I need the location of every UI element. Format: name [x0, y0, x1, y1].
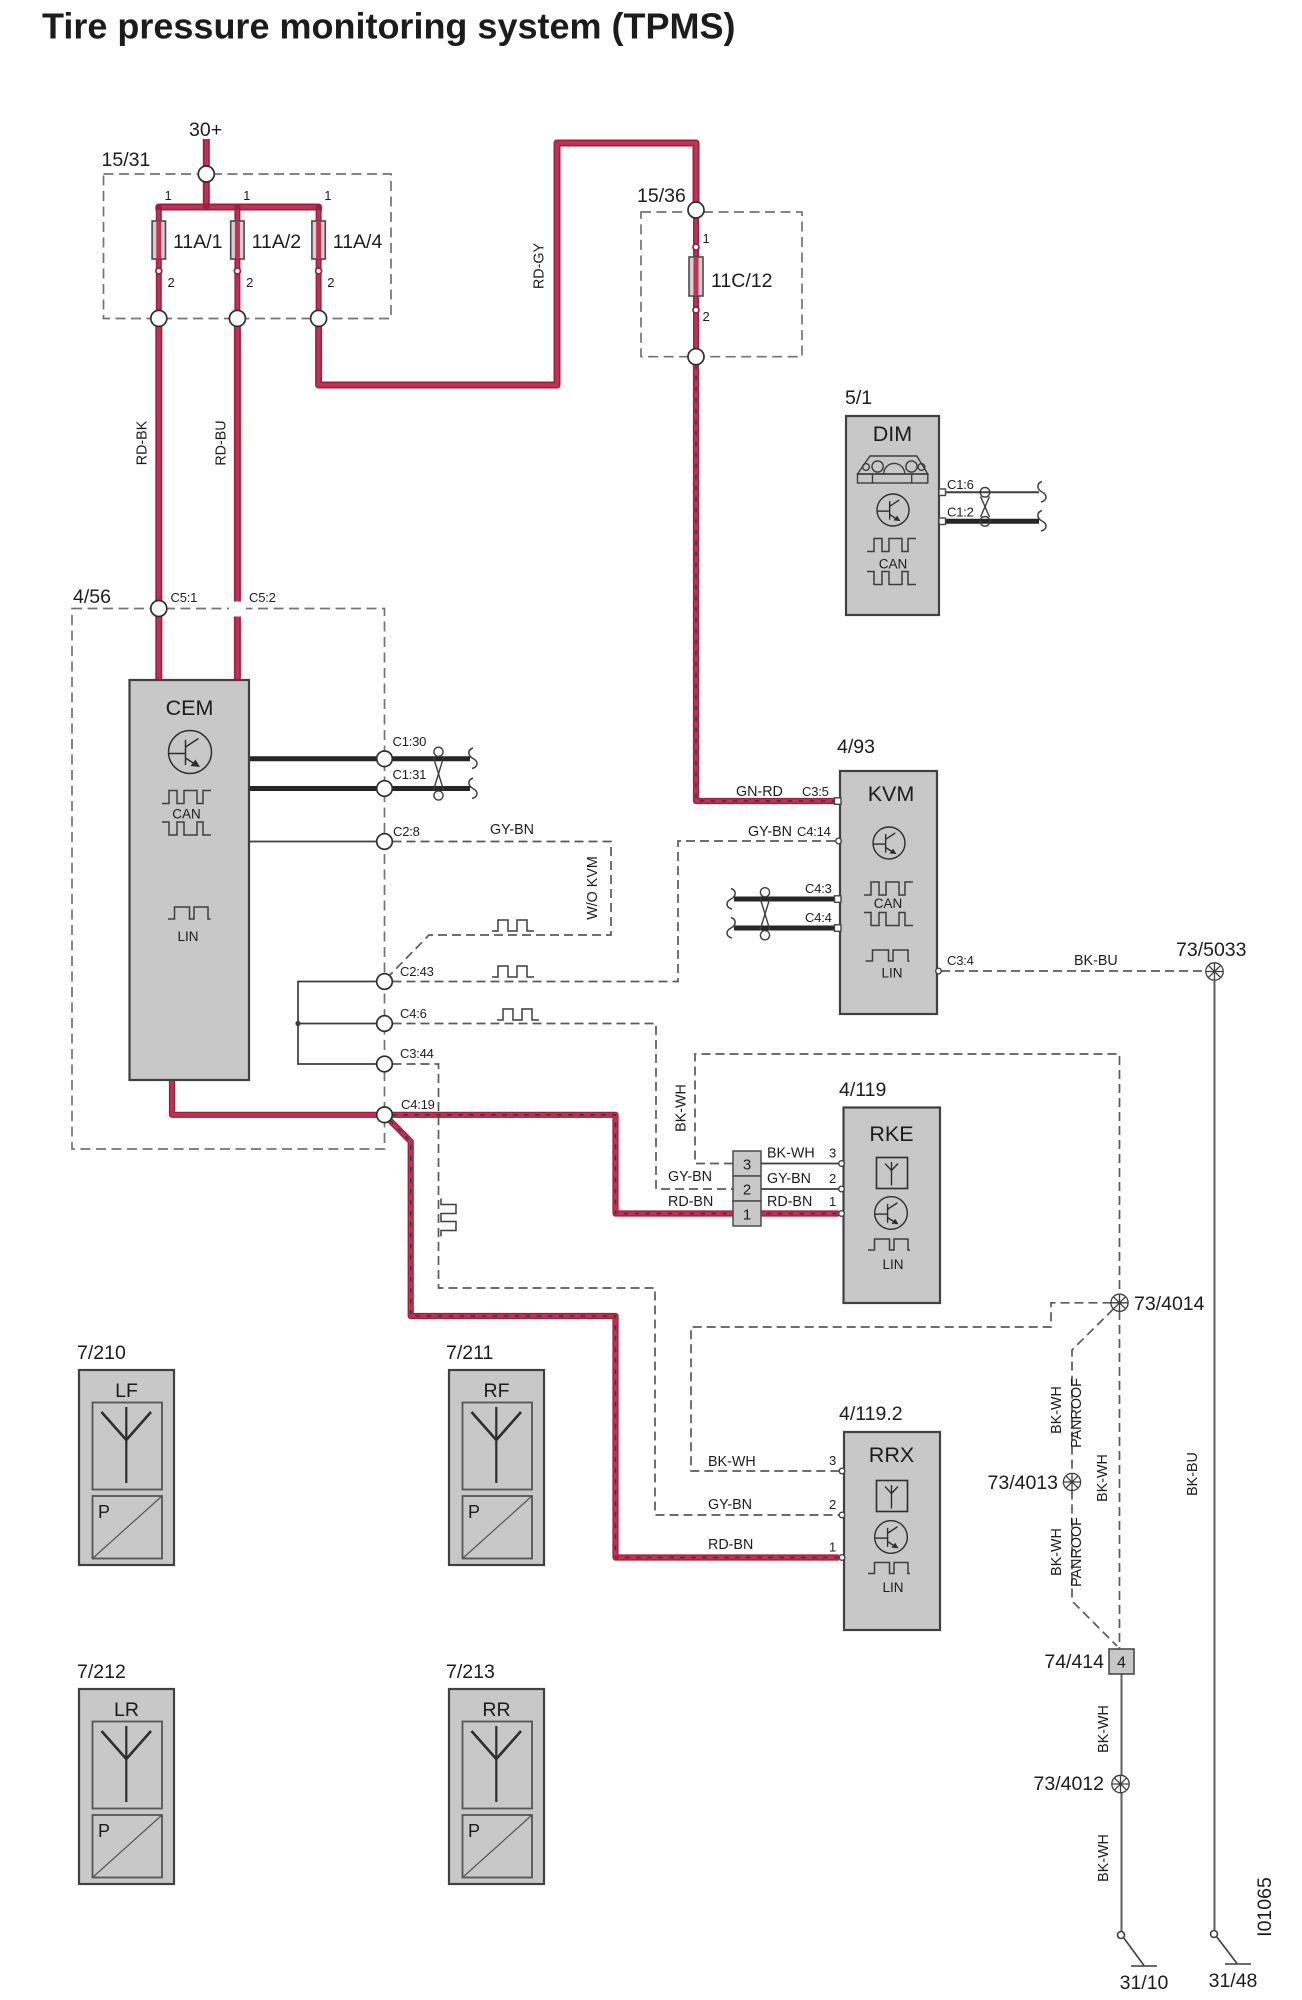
RR box 7/213	[449, 1689, 544, 1884]
svg-text:RR: RR	[482, 1699, 510, 1721]
svg-text:BK-WH: BK-WH	[767, 1146, 815, 1162]
wire CAN KVM C4:4	[734, 926, 840, 931]
svg-text:11C/12: 11C/12	[711, 270, 772, 292]
svg-text:W/O KVM: W/O KVM	[585, 856, 601, 920]
RKE pin 2	[839, 1186, 845, 1192]
svg-text:2: 2	[743, 1182, 751, 1199]
RKE connector block 3 2 1	[733, 1151, 761, 1226]
wire DIM C1:6	[946, 491, 1040, 493]
svg-text:RF: RF	[484, 1380, 510, 1402]
wire RD-BN C4:19 to RKE pin 1	[392, 1115, 839, 1214]
CEM transistor icon	[169, 731, 212, 774]
svg-text:C4:19: C4:19	[401, 1097, 435, 1112]
svg-text:CAN: CAN	[172, 807, 201, 822]
svg-text:1: 1	[165, 188, 172, 203]
wire RD-BK CEM C5:1 into CEM	[155, 617, 162, 681]
square wave symbol rotated on C3:44 drop	[441, 1199, 456, 1237]
wire RD-BN C4:19 branch to RRX pin 1	[390, 1121, 839, 1558]
svg-text:I01065: I01065	[1254, 1877, 1276, 1937]
svg-text:RD-BK: RD-BK	[135, 420, 151, 465]
wire BK-WH PANROOF splice 73/4013 to connector 74/414	[1072, 1491, 1117, 1647]
svg-text:RD-BN: RD-BN	[767, 1194, 812, 1210]
wire RD CEM internal to C4:19	[172, 1080, 377, 1115]
node 15/36 in	[688, 202, 704, 218]
wire CAN C1:31 CEM	[249, 786, 470, 791]
wire RKE pin 3 connector to box	[761, 1163, 839, 1165]
wire CEM C2:8 box to connector	[249, 841, 377, 843]
svg-text:C3:5: C3:5	[802, 784, 829, 799]
CEM box	[130, 680, 250, 1080]
svg-text:RD-BU: RD-BU	[214, 420, 230, 465]
wire CAN C1:30 CEM	[249, 756, 470, 761]
wire GY-BN C2:43 to KVM C4:14	[393, 841, 837, 982]
splice 73/4012	[1112, 1775, 1129, 1792]
svg-text:RD-BN: RD-BN	[708, 1537, 753, 1553]
wire RD through fuse 11C/12	[693, 218, 699, 349]
svg-text:PANROOF: PANROOF	[1069, 1517, 1085, 1587]
svg-text:C5:1: C5:1	[171, 590, 198, 605]
svg-text:LR: LR	[114, 1699, 139, 1721]
DIM box	[846, 416, 939, 615]
wire RD fuse bus	[159, 207, 319, 211]
svg-text:BK-WH: BK-WH	[1049, 1386, 1065, 1434]
svg-text:73/4013: 73/4013	[988, 1472, 1059, 1494]
wire GN-RD fuse 11C/12 to KVM C3:5	[696, 365, 835, 801]
twisted pair symbol DIM C1:6/C1:2	[980, 488, 990, 527]
RKE box	[844, 1108, 941, 1304]
svg-text:C4:14: C4:14	[797, 824, 831, 839]
wire RD-BU CEM C5:2 into CEM	[234, 617, 241, 681]
svg-text:1: 1	[829, 1194, 836, 1209]
connector C4:19	[377, 1107, 393, 1123]
svg-text:GY-BN: GY-BN	[708, 1497, 752, 1513]
svg-text:GY-BN: GY-BN	[490, 822, 534, 838]
svg-text:LIN: LIN	[882, 1257, 903, 1272]
KVM pin C3:5	[835, 798, 842, 805]
wire GY-BN C4:6 to RKE pin 2	[393, 1024, 734, 1190]
wire GY-BN C3:44 to RRX pin 2	[393, 1064, 842, 1515]
svg-text:DIM: DIM	[873, 422, 912, 446]
twisted pair symbol C1:30/C1:31	[434, 747, 444, 800]
svg-text:BK-WH: BK-WH	[1096, 1834, 1112, 1882]
wire break squiggle DIM C1:6	[1038, 482, 1046, 503]
RKE transistor icon	[875, 1197, 908, 1230]
svg-text:15/31: 15/31	[102, 149, 151, 171]
wire BK-WH RKE pin 3 to splice 73/4014	[695, 1054, 1120, 1294]
svg-text:RD-BN: RD-BN	[668, 1194, 713, 1210]
splice 73/4014	[1111, 1294, 1128, 1311]
ground 31/48	[1211, 1931, 1252, 1965]
KVM transistor icon	[873, 827, 905, 859]
svg-text:4: 4	[1117, 1655, 1126, 1672]
node 11A/2 out	[229, 310, 245, 326]
wire RD node to fuse bus	[203, 182, 210, 207]
DIM pin C1:6	[939, 489, 946, 496]
svg-text:P: P	[98, 1502, 110, 1522]
wire break squiggle KVM C4:4	[727, 918, 735, 939]
wire RD through fuse 11A/1	[156, 207, 162, 310]
junction 30+ bus	[203, 204, 209, 210]
fuse 11A/4	[312, 204, 325, 274]
splice 73/5033	[1206, 963, 1223, 980]
svg-text:7/213: 7/213	[446, 1661, 495, 1683]
DIM transistor icon	[877, 494, 909, 526]
CEM LIN icon	[168, 907, 211, 919]
svg-text:GY-BN: GY-BN	[767, 1171, 811, 1187]
svg-text:30+: 30+	[189, 119, 222, 141]
svg-text:P: P	[468, 1821, 480, 1841]
svg-text:RRX: RRX	[869, 1443, 914, 1467]
connector C5:2 gap	[229, 602, 246, 615]
connector C2:8	[377, 834, 393, 850]
node 11A/1 out	[151, 310, 167, 326]
svg-text:2: 2	[246, 275, 253, 290]
LF box 7/210	[79, 1370, 174, 1565]
wire BK-WH splice 73/4014 to connector 74/414 direct	[1119, 1311, 1121, 1649]
svg-text:3: 3	[829, 1146, 836, 1161]
svg-text:C5:2: C5:2	[249, 590, 276, 605]
svg-text:74/414: 74/414	[1044, 1651, 1104, 1673]
svg-text:GY-BN: GY-BN	[668, 1169, 712, 1185]
svg-text:LIN: LIN	[881, 966, 902, 981]
svg-text:C1:30: C1:30	[393, 734, 427, 749]
wire BK-WH PANROOF splice 73/4014 to splice 73/4013	[1072, 1309, 1114, 1474]
svg-text:C1:2: C1:2	[947, 505, 974, 520]
svg-text:2: 2	[829, 1497, 836, 1512]
svg-text:P: P	[468, 1502, 480, 1522]
svg-text:1: 1	[703, 231, 710, 246]
svg-text:11A/2: 11A/2	[252, 231, 302, 253]
fuse 11A/2	[231, 204, 244, 274]
svg-text:RD-GY: RD-GY	[532, 243, 548, 290]
RKE antenna icon	[877, 1158, 908, 1189]
fuse 11A/1	[152, 204, 165, 274]
svg-text:CEM: CEM	[166, 696, 214, 720]
connector C1:31	[377, 781, 393, 797]
RKE pin 1	[839, 1211, 845, 1217]
fuse 11C/12	[689, 244, 703, 313]
svg-text:73/4012: 73/4012	[1034, 1773, 1105, 1795]
RRX pin 3	[839, 1468, 845, 1474]
wire BK-BU splice 73/5033 to ground 31/48	[1214, 981, 1216, 1931]
svg-text:73/4014: 73/4014	[1134, 1293, 1205, 1315]
svg-text:LF: LF	[115, 1380, 138, 1402]
svg-text:31/10: 31/10	[1120, 1972, 1169, 1994]
DIM CAN icon	[867, 539, 916, 585]
connector 74/414 pin 4 box	[1109, 1649, 1134, 1674]
svg-text:3: 3	[829, 1453, 836, 1468]
connector C4:6	[377, 1016, 393, 1032]
svg-text:4/56: 4/56	[73, 586, 111, 608]
svg-text:1: 1	[829, 1540, 836, 1555]
svg-text:LIN: LIN	[882, 1580, 903, 1595]
KVM pin C3:4	[936, 968, 942, 974]
connector C3:44	[377, 1056, 393, 1072]
svg-text:2: 2	[168, 275, 175, 290]
RRX box	[844, 1432, 940, 1630]
svg-text:C2:43: C2:43	[400, 964, 434, 979]
svg-text:1: 1	[324, 188, 331, 203]
wire break squiggle C1:30	[469, 748, 477, 769]
square wave symbol on C4:6 line	[497, 1009, 539, 1020]
KVM CAN icon	[864, 882, 913, 926]
svg-text:CAN: CAN	[874, 896, 903, 911]
svg-text:5/1: 5/1	[845, 387, 872, 409]
svg-text:11A/4: 11A/4	[333, 231, 383, 253]
KVM pin C4:4	[835, 925, 842, 932]
CEM CAN icon	[162, 791, 211, 836]
wire RD feed from 30+	[203, 139, 210, 166]
RRX transistor icon	[875, 1521, 908, 1554]
wire RD through fuse 11A/4	[316, 207, 322, 310]
svg-text:4/119: 4/119	[839, 1079, 886, 1101]
junction dot on tie bus	[295, 1021, 300, 1026]
svg-text:4/119.2: 4/119.2	[839, 1403, 903, 1425]
svg-text:Tire pressure monitoring syste: Tire pressure monitoring system (TPMS)	[42, 6, 736, 47]
wire RD-BU fuse 11A/2 to CEM C5:2	[234, 326, 241, 601]
svg-text:C4:3: C4:3	[805, 881, 832, 896]
wire break squiggle DIM C1:2	[1038, 511, 1046, 532]
node 30+ on 15/31	[198, 166, 214, 182]
wire RD-BK fuse 11A/1 to CEM C5:1	[155, 326, 162, 600]
svg-text:73/5033: 73/5033	[1176, 939, 1247, 961]
square wave symbol on W/O KVM line	[492, 920, 534, 931]
node 15/36 out	[688, 349, 704, 365]
svg-text:LIN: LIN	[177, 929, 198, 944]
RRX pin 1	[839, 1555, 845, 1561]
svg-text:31/48: 31/48	[1209, 1970, 1258, 1992]
wire CEM C2:43 C4:6 C3:44 tie bus	[298, 982, 377, 1065]
svg-text:7/211: 7/211	[446, 1342, 493, 1364]
fuse box 15/36	[641, 212, 802, 357]
svg-text:BK-WH: BK-WH	[1049, 1528, 1065, 1576]
svg-text:BK-WH: BK-WH	[1096, 1705, 1112, 1753]
svg-text:11A/1: 11A/1	[173, 231, 223, 253]
wire break squiggle KVM C4:3	[727, 889, 735, 910]
KVM pin C4:14	[836, 838, 842, 844]
svg-text:15/36: 15/36	[637, 185, 686, 207]
ground 31/10	[1118, 1932, 1158, 1967]
svg-text:GY-BN: GY-BN	[748, 824, 792, 840]
node 11A/4 out	[311, 310, 327, 326]
splice 73/4013	[1063, 1473, 1080, 1490]
svg-text:BK-WH: BK-WH	[674, 1084, 690, 1132]
wire BK-WH connector 74/414 to ground 31/10	[1121, 1674, 1123, 1932]
svg-text:1: 1	[743, 1207, 751, 1224]
wire RD through fuse 11A/2	[234, 207, 240, 310]
svg-text:C1:31: C1:31	[393, 767, 427, 782]
svg-text:2: 2	[829, 1171, 836, 1186]
svg-text:GN-RD: GN-RD	[736, 784, 783, 800]
KVM box	[840, 771, 937, 1014]
LR box 7/212	[79, 1689, 174, 1884]
svg-text:CAN: CAN	[879, 557, 908, 572]
wire CAN KVM C4:3	[734, 897, 840, 902]
twisted pair symbol KVM C4:3/C4:4	[760, 888, 770, 940]
svg-text:2: 2	[703, 309, 710, 324]
wire break squiggle C1:31	[469, 778, 477, 799]
svg-text:BK-WH: BK-WH	[1095, 1454, 1111, 1502]
component box 4/56 (CEM)	[72, 609, 385, 1150]
DIM dashboard icon	[858, 456, 928, 483]
fuse box 15/31	[104, 174, 392, 319]
svg-text:BK-WH: BK-WH	[708, 1454, 756, 1470]
wire RD-GY fuse 11A/4 to fuse box 15/36	[319, 143, 696, 385]
RF box 7/211	[449, 1370, 544, 1565]
wire BK-BU KVM C3:4 to splice 73/5033	[941, 970, 1206, 972]
connector C5:1	[151, 601, 167, 617]
KVM LIN icon	[866, 950, 910, 961]
svg-text:BK-BU: BK-BU	[1074, 953, 1118, 969]
RRX antenna icon	[877, 1481, 908, 1512]
RKE LIN icon	[868, 1239, 910, 1250]
svg-text:C3:4: C3:4	[947, 953, 974, 968]
svg-text:C3:44: C3:44	[400, 1046, 434, 1061]
wire RKE pin 2 connector to box	[761, 1188, 839, 1190]
RKE pin 3	[839, 1161, 845, 1167]
wire GY-BN C2:8 W/O KVM route	[390, 842, 611, 976]
svg-text:P: P	[98, 1821, 110, 1841]
svg-text:PANROOF: PANROOF	[1069, 1378, 1085, 1448]
KVM pin C4:3	[835, 896, 842, 903]
RRX LIN icon	[868, 1563, 910, 1574]
svg-text:C2:8: C2:8	[393, 824, 420, 839]
svg-text:7/210: 7/210	[77, 1342, 126, 1364]
svg-text:3: 3	[743, 1157, 751, 1174]
connector C1:30	[377, 751, 393, 767]
DIM pin C1:2	[939, 518, 946, 525]
svg-text:1: 1	[243, 188, 250, 203]
svg-text:7/212: 7/212	[77, 1661, 126, 1683]
square wave symbol on C2:43 line	[492, 966, 534, 977]
wire CAN DIM C1:2	[946, 519, 1040, 524]
svg-text:BK-BU: BK-BU	[1185, 1452, 1201, 1496]
wire BK-WH splice 73/4014 to RRX pin 3	[691, 1303, 1112, 1471]
RRX pin 2	[839, 1512, 845, 1518]
connector C2:43	[377, 974, 393, 990]
svg-text:RKE: RKE	[869, 1122, 913, 1146]
svg-text:C4:4: C4:4	[805, 910, 832, 925]
svg-text:4/93: 4/93	[837, 736, 875, 758]
svg-text:2: 2	[327, 275, 334, 290]
svg-text:C1:6: C1:6	[947, 477, 974, 492]
svg-text:C4:6: C4:6	[400, 1006, 427, 1021]
svg-text:KVM: KVM	[868, 782, 915, 806]
